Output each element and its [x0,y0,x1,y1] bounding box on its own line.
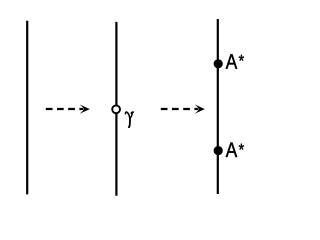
node gamma: open circle vertex on middle line [112,105,120,113]
label A lower [226,143,238,158]
label asterisk lower [239,144,244,150]
wire: dashed arrow 1 shaft [46,108,83,110]
wire: left vertical world line [26,21,28,195]
wire: middle vertical world line [115,22,117,196]
node A* lower: filled vertex dot [214,146,223,155]
label gamma [125,112,133,127]
node A* upper: filled vertex dot [214,59,223,68]
arrowhead 1 [80,104,90,113]
wire: right vertical world line [217,19,219,194]
label asterisk upper [239,55,244,61]
wire: dashed arrow 2 shaft [161,108,198,110]
label A upper [226,54,238,68]
arrowhead 2 [195,104,205,113]
